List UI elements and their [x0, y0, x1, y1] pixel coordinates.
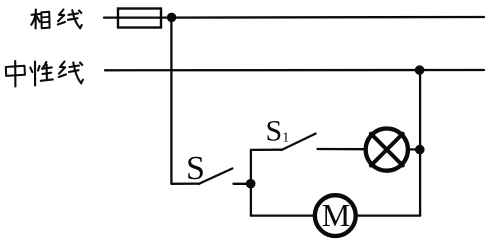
wire motor branch right — [358, 214, 420, 216]
lamp L (circle with X) — [366, 129, 408, 171]
switch S blade (open) — [199, 169, 233, 185]
性 : 忄 radical — [34, 62, 36, 86]
svg-text:S: S — [186, 150, 205, 187]
相 : 目 part — [41, 12, 49, 28]
wire through fuse — [118, 16, 161, 18]
线 : 纟 radical — [58, 10, 64, 22]
wire node C down to motor branch — [250, 184, 252, 216]
性 : 生 part — [42, 62, 46, 68]
node B (neutral junction) — [415, 65, 425, 75]
相 : 木 radical — [32, 13, 41, 16]
wire lamp to right vertical — [410, 148, 420, 150]
fuse F — [118, 9, 161, 28]
中 — [6, 66, 25, 76]
wire S throw contact to node C — [234, 183, 247, 185]
switch S1 blade (open) — [282, 134, 316, 150]
wire node C up to switch S1 — [250, 150, 252, 184]
node D (lamp/right-rail junction) — [415, 145, 425, 155]
node A (phase junction) — [167, 13, 177, 23]
wire S fixed contact — [171, 182, 199, 184]
线 : 戋 part — [69, 13, 79, 14]
wire neutral line — [105, 69, 484, 72]
wire S1 throw to lamp — [318, 148, 365, 150]
线 : 纟 radical — [59, 62, 65, 74]
wire phase line left segment into fuse — [104, 16, 118, 18]
wire S1 fixed contact — [251, 149, 282, 151]
wire phase line right segment — [161, 16, 484, 19]
wire vertical from node A down to switch S — [170, 17, 172, 183]
svg-text:S1: S1 — [266, 115, 290, 148]
svg-text:M: M — [322, 197, 350, 233]
wire motor branch left — [251, 214, 313, 216]
wire right vertical rail (node B to motor wire) — [419, 70, 421, 216]
线 : 戋 part — [70, 66, 80, 68]
node C (junction of S1 branch and motor branch) — [246, 179, 256, 189]
label 中性线 (neutral line) — [6, 61, 83, 87]
label 相线 (phase line) — [31, 10, 82, 29]
motor M — [315, 195, 356, 236]
